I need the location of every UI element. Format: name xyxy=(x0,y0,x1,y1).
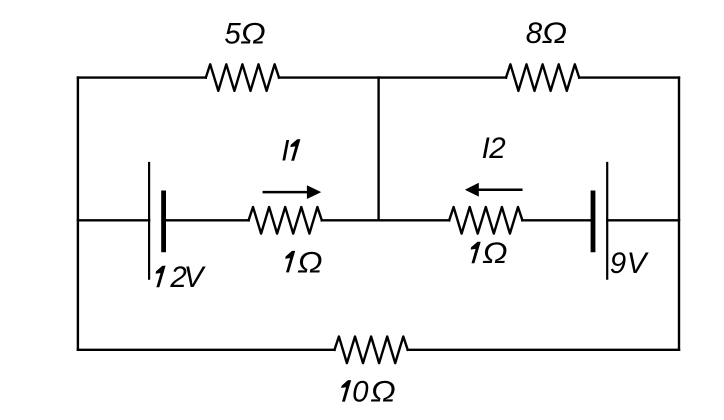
wire: bottom left segment xyxy=(78,349,335,351)
svg-text:I: I xyxy=(281,135,289,168)
battery 12V: short thick plate xyxy=(161,193,166,250)
source label 12V xyxy=(156,261,206,294)
source label 9V xyxy=(610,247,649,280)
svg-text:8: 8 xyxy=(526,17,543,50)
resistor 8ohm (top right) xyxy=(506,64,579,91)
svg-text:5: 5 xyxy=(224,18,241,51)
value label 8ohm xyxy=(526,17,567,50)
battery 9V: short thick plate xyxy=(591,193,596,250)
wire: bottom right segment xyxy=(408,349,679,351)
svg-text:Ω: Ω xyxy=(297,246,322,279)
svg-text:Ω: Ω xyxy=(240,17,265,50)
svg-text:I2: I2 xyxy=(482,132,506,165)
resistor 5ohm (top left) xyxy=(206,64,279,91)
resistor 1ohm (left, in I1 branch) xyxy=(249,207,322,234)
wire: middle branch, 9V battery to right vertical xyxy=(607,219,679,221)
svg-text:V: V xyxy=(627,247,649,280)
current label I1 xyxy=(281,135,300,168)
value label 10ohm xyxy=(341,375,395,408)
wire: top middle segment xyxy=(279,76,506,78)
wire: top right segment xyxy=(579,76,679,78)
svg-text:Ω: Ω xyxy=(482,237,507,270)
wire: middle branch, 1ohm to center node to right 1ohm xyxy=(322,219,449,221)
svg-text:0: 0 xyxy=(352,376,369,409)
battery 12V: long thin plate xyxy=(148,163,150,279)
resistor 1ohm (right, in I2 branch) xyxy=(449,207,522,234)
wire: right vertical branch xyxy=(678,78,680,350)
svg-text:Ω: Ω xyxy=(370,375,395,408)
current arrow I1 shaft xyxy=(264,191,309,194)
value label 5ohm xyxy=(224,17,265,50)
value label 1ohm (left) xyxy=(285,246,322,279)
wire: top left segment xyxy=(78,76,206,78)
current arrow I1 head xyxy=(307,185,321,199)
wire: left vertical branch xyxy=(77,78,79,350)
wire: middle branch, 12V battery to 1ohm resistor xyxy=(164,219,249,221)
wire: middle vertical branch (node between 5&#937; and 8&#937;) xyxy=(377,78,379,221)
svg-text:9: 9 xyxy=(610,247,626,280)
svg-text:V: V xyxy=(184,261,206,294)
svg-text:Ω: Ω xyxy=(542,17,567,50)
value label 1ohm (right) xyxy=(471,237,507,270)
current arrow I2 shaft xyxy=(477,188,521,191)
resistor 10ohm (bottom) xyxy=(335,337,408,364)
wire: middle branch, left stub to 12V battery xyxy=(78,219,149,221)
battery 9V: long thin plate xyxy=(606,163,608,279)
current arrow I2 head xyxy=(465,183,479,197)
wire: middle branch, right 1ohm to 9V battery xyxy=(522,219,593,221)
